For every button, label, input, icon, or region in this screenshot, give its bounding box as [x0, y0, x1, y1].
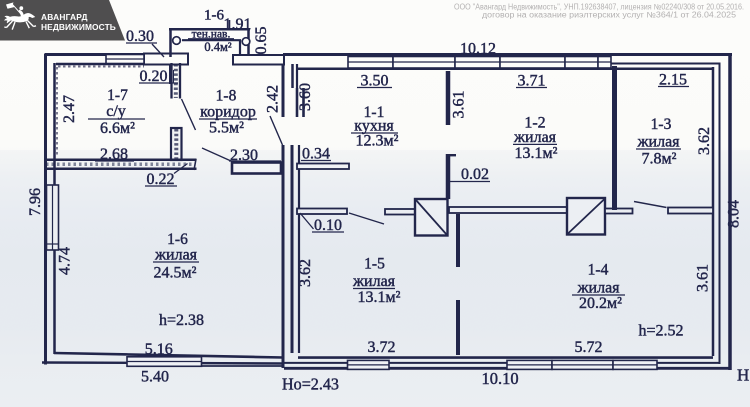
- svg-text:1-6: 1-6: [204, 8, 224, 24]
- svg-text:5.5м²: 5.5м²: [209, 120, 244, 137]
- svg-text:13.1м²: 13.1м²: [515, 145, 558, 162]
- svg-text:3.62: 3.62: [696, 127, 713, 155]
- svg-text:1-6: 1-6: [167, 231, 188, 248]
- svg-text:12.3м²: 12.3м²: [356, 133, 399, 150]
- svg-text:1-7: 1-7: [107, 87, 128, 104]
- svg-text:Но=2.43: Но=2.43: [282, 375, 339, 394]
- svg-text:Н: Н: [737, 366, 749, 385]
- svg-text:0.02: 0.02: [461, 166, 489, 183]
- svg-text:10.12: 10.12: [460, 41, 496, 58]
- svg-text:3.61: 3.61: [695, 264, 712, 292]
- svg-text:5.40: 5.40: [141, 369, 169, 386]
- svg-text:жилая: жилая: [513, 129, 557, 146]
- svg-text:жилая: жилая: [576, 280, 620, 297]
- svg-text:0.65: 0.65: [253, 27, 270, 55]
- svg-text:20.2м²: 20.2м²: [579, 295, 622, 312]
- svg-text:2.47: 2.47: [61, 95, 78, 123]
- svg-text:3.61: 3.61: [451, 91, 468, 119]
- svg-text:НЕДВИЖИМОСТЬ: НЕДВИЖИМОСТЬ: [41, 22, 116, 32]
- svg-text:2.42: 2.42: [265, 85, 282, 113]
- svg-text:3.72: 3.72: [368, 339, 396, 356]
- svg-text:10.10: 10.10: [481, 369, 518, 388]
- svg-text:13.1м²: 13.1м²: [358, 289, 401, 306]
- svg-text:8.04: 8.04: [726, 200, 743, 228]
- svg-text:коридор: коридор: [200, 104, 256, 121]
- svg-text:жилая: жилая: [636, 134, 680, 151]
- svg-text:h=2.38: h=2.38: [159, 312, 204, 329]
- svg-text:1-4: 1-4: [588, 262, 609, 279]
- svg-text:7.8м²: 7.8м²: [642, 151, 677, 168]
- svg-text:h=2.52: h=2.52: [638, 323, 683, 340]
- svg-text:1-8: 1-8: [216, 88, 237, 105]
- svg-text:3.62: 3.62: [297, 259, 314, 287]
- svg-text:жилая: жилая: [154, 247, 198, 264]
- svg-text:4.74: 4.74: [57, 247, 74, 275]
- svg-text:договор на оказание риэлтерски: договор на оказание риэлтерских услуг №3…: [482, 11, 737, 20]
- svg-text:0.4м²: 0.4м²: [204, 40, 232, 54]
- svg-text:1-5: 1-5: [364, 256, 385, 273]
- svg-text:5.16: 5.16: [145, 341, 173, 358]
- svg-text:24.5м²: 24.5м²: [154, 265, 197, 282]
- svg-text:6.6м²: 6.6м²: [100, 120, 135, 137]
- svg-text:с/у: с/у: [106, 103, 126, 120]
- svg-text:1-3: 1-3: [651, 116, 672, 133]
- svg-text:5.72: 5.72: [575, 339, 603, 356]
- svg-text:3.60: 3.60: [297, 83, 314, 111]
- svg-text:7.96: 7.96: [27, 188, 44, 216]
- svg-text:жилая: жилая: [352, 273, 396, 290]
- svg-text:АВАНГАРД: АВАНГАРД: [41, 12, 88, 22]
